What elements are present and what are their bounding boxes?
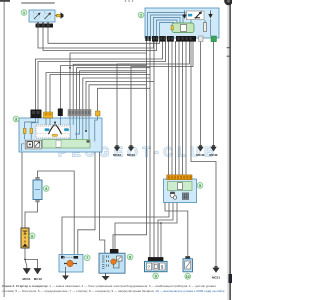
- fusebox arrow right: [209, 12, 212, 18]
- box A ground arrow: [62, 276, 69, 281]
- svg-text:MC4E: MC4E: [196, 153, 204, 157]
- bolt terminal head: [61, 12, 64, 18]
- gauge dial right: [44, 13, 51, 20]
- fusebox bottom pin row: [145, 36, 216, 42]
- junction dot grey pin1 wire: [69, 67, 71, 69]
- svg-text:MC01: MC01: [22, 277, 30, 281]
- wire staircase grey pin 6: [86, 81, 154, 110]
- svg-text:MC10: MC10: [113, 153, 121, 157]
- node label 3: [13, 116, 19, 122]
- wire fusebox pin 175.5 to relay box strip: [175, 41, 177, 175]
- wire relay box 5 pin to box B connector: [115, 203, 177, 250]
- wire relay box 5 pin to box C pin 158: [158, 203, 173, 258]
- cluster junction dot: [85, 130, 87, 132]
- cluster white gauge panel: [36, 125, 70, 138]
- node label 2: [138, 12, 144, 18]
- box D top connector: [185, 256, 190, 259]
- ground MC51 bar: [214, 266, 217, 268]
- wire sensor 4 bottom to fuse 6 top: [25, 200, 38, 228]
- top grey dash: [21, 2, 55, 4]
- fuse link 6 body: [21, 228, 29, 248]
- wire cluster bottom pin 95 to box A pin 77.8: [78, 148, 95, 255]
- wire staircase grey pin 4: [80, 71, 147, 110]
- box A body (switch unit): [59, 255, 83, 273]
- box B white square: [117, 256, 122, 261]
- cluster top connector black 2pin: [31, 110, 42, 119]
- gauge unit 1 connector: [36, 24, 54, 28]
- cluster fuse yellow left: [23, 128, 26, 133]
- wire gauge to bolt: [55, 15, 57, 17]
- relay unit 5 body: [164, 179, 197, 203]
- wire sensor 4 top to box A pin 74.2: [38, 171, 75, 255]
- cluster top connector yellow 2pin: [44, 112, 53, 118]
- node label 10: [185, 273, 191, 279]
- green strip right mark: [87, 140, 90, 142]
- gauge connector stubs: [38, 22, 48, 24]
- ground MC4E right arrow: [210, 147, 216, 152]
- wire fusebox pin 150 down to box C: [149, 41, 151, 258]
- wire relay box 5 pin to box A pin 62: [62, 203, 169, 255]
- wire fusebox pin 154 down to box C: [153, 41, 155, 258]
- wire staircase grey pin 3: [76, 68, 150, 110]
- wire staircase grey pin 2: [73, 64, 146, 110]
- ground MC4E right bar: [212, 145, 215, 147]
- cluster sub box bottom left: [25, 140, 41, 149]
- svg-text:MC4E: MC4E: [209, 153, 217, 157]
- fusebox internal wires: [148, 10, 211, 36]
- fusebox relay contact symbol: [187, 11, 205, 20]
- sub box dashed lead: [21, 143, 25, 145]
- wire fusebox green pin to ground MC4E right: [213, 41, 215, 146]
- panel needle apex mark: [54, 122, 56, 124]
- wire fusebox white pin to ground MC4E left: [200, 41, 202, 146]
- wire staircase grey pin 1: [70, 53, 147, 110]
- svg-text:MC10: MC10: [34, 277, 42, 281]
- junction dot at branch 161/223: [160, 222, 162, 224]
- node label 8: [127, 254, 133, 260]
- box C top connector: [148, 257, 164, 261]
- node label 1: [21, 10, 27, 16]
- cluster internal wires: [25, 116, 98, 141]
- box B inner wire: [114, 261, 120, 268]
- box A internal drop: [65, 267, 67, 272]
- cluster top connector black 1pin: [58, 109, 63, 117]
- svg-text:Схема 3. Стартер и генератор:: Схема 3. Стартер и генератор: 1 — замок …: [2, 284, 216, 288]
- right border tick 2: [227, 56, 230, 57]
- box D body (switch): [183, 259, 193, 272]
- ground MC01 arrow: [23, 269, 30, 275]
- wire fusebox pin 179 to relay box strip: [178, 41, 180, 175]
- page right border light: [227, 0, 230, 300]
- green bar white center: [177, 183, 182, 190]
- ground MC51 arrow: [212, 268, 219, 273]
- wire fusebox pin 196.5 to ground MC51: [191, 41, 216, 267]
- wire fuse 6 bottom to ground MC01: [25, 248, 27, 269]
- bolt terminal shaft: [57, 14, 62, 17]
- cluster internal left drop wire: [20, 144, 22, 151]
- svg-text:MC10: MC10: [127, 153, 135, 157]
- wire fusebox pin 186 to relay box strip: [185, 41, 187, 175]
- right bottom dark block: [229, 274, 232, 283]
- top center dots: [125, 0, 134, 2]
- wire branch from y223 run down to box C pin 161: [160, 223, 162, 258]
- sensor 4 bottom tab: [36, 199, 40, 202]
- top-left dark bar: [0, 0, 10, 2]
- wire staircase grey pin 5: [83, 78, 150, 110]
- ground MC10 mid-left arrow: [114, 147, 120, 152]
- box B body (control unit): [99, 253, 125, 273]
- wire cluster top yellow pin to east: [98, 88, 151, 111]
- box B ground stem: [105, 273, 107, 276]
- wire fusebox pin 172 to relay box strip: [171, 41, 173, 175]
- cluster green strip: [43, 139, 91, 148]
- ground MC4E left arrow: [197, 147, 203, 152]
- cluster top connector grey 7pin: [68, 110, 91, 117]
- box A dashed link: [64, 256, 73, 258]
- relay center white square: [181, 25, 187, 32]
- box C body (connector block): [145, 261, 168, 271]
- svg-text:топлива; 5 — блок реле; 6 — пр: топлива; 5 — блок реле; 6 — предохраните…: [2, 289, 225, 293]
- node label 5: [197, 183, 203, 189]
- sensor 4 top tab: [36, 177, 40, 180]
- wire single black pin of cluster to bus: [61, 66, 147, 109]
- relay unit hatched block: [182, 193, 188, 200]
- panel blue icon right: [64, 128, 69, 131]
- fuse link 6 bottom arrow: [23, 244, 27, 247]
- relay unit motor symbol: [170, 192, 177, 199]
- box A orange motor: [67, 260, 73, 266]
- gauge dial left: [33, 13, 40, 20]
- box A pin symbols left: [62, 257, 65, 259]
- svg-text:MC51: MC51: [212, 276, 220, 280]
- wire fusebox pin 189.5 to ground MC10 mid-left: [117, 41, 190, 146]
- box B orange element: [111, 259, 117, 265]
- engine fusebox 2 body: [145, 8, 219, 38]
- box C cell 3: [160, 263, 165, 270]
- wire cluster bottom left to fuse 6 top: [21, 151, 23, 228]
- wire cluster green strip right to box B left pin: [90, 141, 105, 253]
- box C cell 2: [153, 263, 158, 270]
- relay yellow tab: [171, 26, 173, 30]
- wire staircase grey pin 7: [89, 85, 147, 110]
- panel yellow lamp: [52, 134, 58, 136]
- box B ground arrow: [102, 276, 110, 281]
- sub box cell right: [34, 142, 40, 148]
- wire gauge1 pin3 to fusebox: [48, 27, 160, 43]
- fusebox resistor element: [204, 23, 207, 32]
- box A pin symbol right: [74, 256, 79, 259]
- ground MC10 mid-right arrow: [128, 147, 134, 152]
- box C cell 1: [146, 263, 151, 270]
- panel tick marks: [37, 126, 69, 133]
- ground MC10 mid-right bar: [129, 145, 132, 147]
- gauge pin marks: [33, 12, 46, 14]
- wire fusebox pin 165.5 to cluster black pin 38: [38, 41, 166, 110]
- sub box cell left: [27, 142, 33, 148]
- wire cluster yellow pin 46 to bus: [46, 73, 147, 112]
- right border tick 1: [227, 47, 230, 48]
- node label 9: [153, 273, 159, 279]
- relay unit 5 orange connector strip: [167, 175, 192, 180]
- cluster top connector yellow 1pin: [96, 111, 101, 116]
- wire fusebox pin 182.5 to relay box strip: [182, 41, 184, 175]
- wire fusebox pin 168.5 to relay box strip: [168, 41, 170, 175]
- panel needle left: [49, 125, 55, 135]
- node label 4: [43, 186, 49, 192]
- page right border dark: [229, 0, 230, 300]
- ground MC10 mid-left bar: [115, 145, 118, 147]
- top-right corner circle icon: [224, 0, 233, 5]
- node label 6: [29, 233, 35, 239]
- sensor 4 inner mark: [35, 189, 40, 191]
- wire gauge1 pin2 to fusebox: [43, 27, 157, 51]
- instrument cluster 3 body: [19, 118, 102, 152]
- junction dot at fuse6 branch: [24, 259, 26, 261]
- wire fusebox pin 162.5 to cluster black pin 35.5: [36, 41, 163, 110]
- relay unit green bar: [167, 182, 192, 191]
- gauge unit 1 body: [29, 10, 55, 22]
- svg-text:10: 10: [186, 275, 190, 279]
- wire relay box 5 pin to box D: [165, 203, 188, 257]
- fusebox arrow left: [183, 13, 186, 18]
- fuse link 6 top T symbol: [23, 231, 28, 234]
- wire gauge1 pin1 to fusebox: [38, 27, 154, 48]
- wire bus from fusebox pin 146.5 down to box B: [113, 41, 147, 250]
- box B top connector: [110, 249, 119, 253]
- box D white cell: [185, 261, 191, 269]
- fuse link 6 dashes: [24, 237, 26, 243]
- panel blue icon left: [45, 128, 50, 131]
- page left border: [3, 0, 5, 297]
- panel needle right: [55, 125, 61, 135]
- ground MC4E left bar: [199, 145, 202, 147]
- box B pin cluster 1: [102, 256, 109, 269]
- green strip white notch: [56, 140, 61, 147]
- cluster fuse yellow right: [30, 128, 33, 133]
- wire branch fuse 6 to ground MC10: [25, 259, 38, 268]
- sensor 4 body: [33, 180, 42, 200]
- wire fusebox pin 193 to ground MC10 mid-right: [131, 41, 193, 146]
- box A ground stem: [65, 272, 67, 276]
- fusebox relay body green: [172, 23, 194, 33]
- ground MC10 arrow bottomleft: [34, 269, 41, 275]
- node label 7: [84, 255, 90, 261]
- wire cluster yellow pin 50 to bus: [50, 75, 150, 113]
